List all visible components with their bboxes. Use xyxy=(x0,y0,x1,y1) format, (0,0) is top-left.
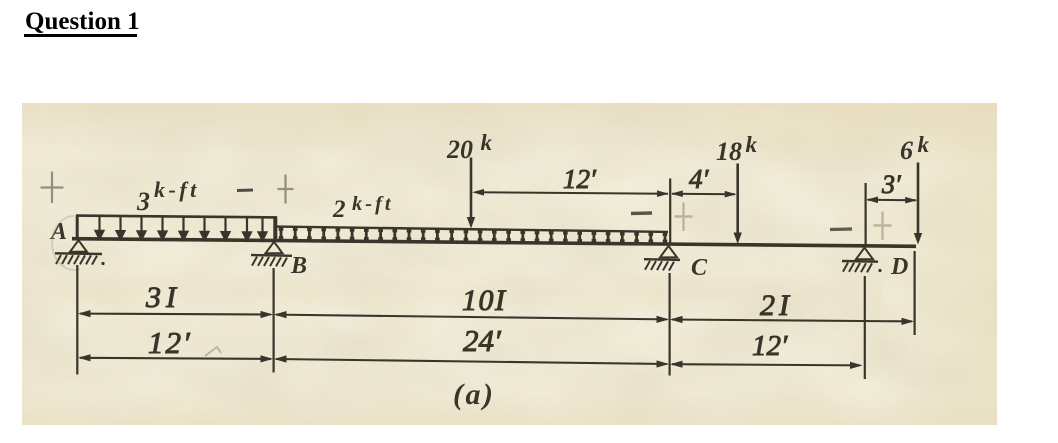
svg-text:(a): (a) xyxy=(453,378,495,411)
dimension 24' (B-C span row) xyxy=(274,323,669,368)
support B triangle and hatching xyxy=(251,242,292,267)
extension line above D xyxy=(864,183,866,247)
label 3 k-ft xyxy=(136,177,200,216)
svg-text:C: C xyxy=(691,255,708,281)
dimension 10I (B-C stiffness row) xyxy=(274,284,669,323)
svg-text:20: 20 xyxy=(446,135,473,164)
sign + right of D xyxy=(874,212,892,241)
point load 20k arrow xyxy=(467,158,475,229)
dimension 4' top xyxy=(671,164,737,198)
svg-text:10I: 10I xyxy=(462,284,507,317)
2 k-ft interior ticks xyxy=(279,227,668,244)
svg-text:6: 6 xyxy=(900,136,913,165)
support D triangle and hatching xyxy=(842,248,882,273)
svg-text:3: 3 xyxy=(136,187,150,216)
svg-text:B: B xyxy=(290,253,307,279)
sign - left of B xyxy=(237,189,253,193)
distributed load 2 k-ft block B to C xyxy=(277,227,668,232)
sign + right of C xyxy=(675,203,693,232)
svg-text:12′: 12′ xyxy=(752,330,788,362)
svg-text:18: 18 xyxy=(716,137,742,166)
extension line above C xyxy=(669,179,671,244)
dimension 12' top xyxy=(472,164,669,197)
svg-text:D: D xyxy=(890,254,908,280)
point load 6k arrow xyxy=(914,163,922,245)
point load 18k arrow xyxy=(734,164,742,245)
3 k-ft interior ticks with down arrowheads xyxy=(96,216,267,240)
sign + left of A xyxy=(41,172,64,204)
svg-text:3′: 3′ xyxy=(881,170,901,199)
svg-text:12′: 12′ xyxy=(148,325,192,360)
dimension 2I (C-end stiffness row) xyxy=(670,289,914,325)
beam A to right end xyxy=(72,239,916,247)
svg-text:2I: 2I xyxy=(760,289,793,322)
svg-text:k: k xyxy=(918,132,930,157)
extension line below D xyxy=(864,276,866,379)
svg-text:k: k xyxy=(746,132,758,157)
svg-text:2: 2 xyxy=(332,196,346,223)
sign + right of B xyxy=(278,175,294,204)
svg-text:k-ft: k-ft xyxy=(154,177,200,202)
svg-text:24′: 24′ xyxy=(463,323,502,358)
extension line below beam right end xyxy=(913,251,915,335)
dimension 12' (A-B span row) xyxy=(78,325,273,363)
label 20k xyxy=(446,130,493,164)
dimension 3' top right xyxy=(866,170,917,204)
pencil mark near 12' xyxy=(205,347,221,356)
extension line below A xyxy=(76,265,78,375)
label 6k xyxy=(900,132,930,165)
svg-text:4′: 4′ xyxy=(689,164,710,194)
sign - left of D xyxy=(830,227,852,231)
svg-text:k: k xyxy=(481,130,493,155)
svg-text:12′: 12′ xyxy=(563,164,597,194)
sign - left of C xyxy=(631,211,652,215)
pencil circle around support A xyxy=(52,216,80,270)
label 18k xyxy=(716,132,758,166)
extension line below C xyxy=(668,273,670,376)
dimension 3I (A-B stiffness row) xyxy=(78,281,273,318)
distributed load 3 k-ft block A to B xyxy=(76,215,277,241)
svg-text:3I: 3I xyxy=(145,281,181,314)
svg-text:k-ft: k-ft xyxy=(352,193,394,215)
dimension 12' (C-D span row) xyxy=(670,330,863,369)
support C triangle and hatching xyxy=(644,246,680,271)
label 2 k-ft xyxy=(332,193,394,223)
support A triangle and hatching xyxy=(55,240,105,265)
extension line below B xyxy=(273,268,275,373)
